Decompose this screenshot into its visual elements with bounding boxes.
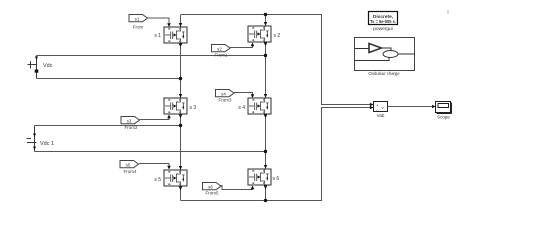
wire From1 to s2 gate <box>230 43 254 48</box>
From tag From3 (gate s4) <box>216 90 235 103</box>
svg-text:s 2: s 2 <box>274 33 281 39</box>
mosfet s5 <box>154 166 187 190</box>
wire left rail segment above s1 <box>180 15 182 27</box>
mosfet s2 <box>248 22 280 46</box>
wire Vab to Scope <box>388 105 436 108</box>
junction top bus / right rail <box>264 13 267 16</box>
svg-text:s4: s4 <box>221 92 226 97</box>
From tag From5 (gate s6) <box>203 183 222 196</box>
wire left rail s5 to bottom bus <box>180 187 182 201</box>
wire left rail s1 to s3 <box>180 44 182 98</box>
svg-text:s5: s5 <box>126 163 131 168</box>
svg-text:From2: From2 <box>124 125 137 130</box>
svg-text:s 1: s 1 <box>154 33 161 39</box>
powergui block <box>369 12 398 33</box>
svg-text:s2: s2 <box>217 47 222 52</box>
DC source Vdc <box>28 56 53 79</box>
svg-text:s 6: s 6 <box>273 176 280 182</box>
stray faint mark top right <box>447 10 449 15</box>
svg-text:Ts = 5e-005 s.: Ts = 5e-005 s. <box>370 19 396 25</box>
junction Vdc1 minus / right rail <box>264 150 267 153</box>
DC source Vdc1 <box>27 126 55 152</box>
junction Vdc plus / right rail <box>264 54 267 57</box>
wire From to s1 gate <box>148 18 171 27</box>
svg-text:Vdc 1: Vdc 1 <box>40 141 54 147</box>
From tag From1 (gate s2) <box>212 45 231 58</box>
wire right measurement drop (top bus to +) <box>322 15 373 105</box>
svg-text:Scope: Scope <box>437 115 450 120</box>
svg-text:powergui: powergui <box>373 26 392 32</box>
mosfet s1 <box>154 23 187 47</box>
wire left rail s3 to s5 <box>180 115 182 170</box>
svg-text:From4: From4 <box>123 169 136 174</box>
wire right rail segment above s2 <box>265 15 267 26</box>
svg-text:From: From <box>133 25 144 30</box>
wire right rail s2 to s4 <box>265 43 267 98</box>
svg-text:From5: From5 <box>205 191 218 196</box>
wire From2 to s3 gate <box>140 115 171 120</box>
wire right measurement rise (bottom bus to -) <box>322 108 373 201</box>
svg-text:From3: From3 <box>218 97 231 102</box>
subsystem Onduleur/charge <box>355 38 415 77</box>
svg-text:Vdc: Vdc <box>43 63 53 69</box>
wire right rail s4 to s6 <box>265 115 267 169</box>
wire Vdc1 plus to left rail <box>35 125 181 127</box>
wire Vdc1 minus to right rail <box>35 151 266 153</box>
From tag From2 (gate s3) <box>121 117 140 130</box>
wire top DC+ bus <box>181 14 323 16</box>
junction bottom bus / right rail <box>264 199 267 202</box>
scope block <box>436 102 452 120</box>
svg-text:From1: From1 <box>214 53 227 58</box>
svg-text:s1: s1 <box>135 17 140 22</box>
mosfet s3 <box>164 94 196 118</box>
svg-text:Discrete,: Discrete, <box>373 14 394 20</box>
svg-text:Onduleur charge: Onduleur charge <box>368 71 400 76</box>
wire From4 to s5 gate <box>139 164 171 170</box>
svg-text:s 5: s 5 <box>154 177 161 183</box>
wire From5 to s6 gate <box>221 186 255 190</box>
svg-text:s 3: s 3 <box>190 105 197 111</box>
svg-text:s6: s6 <box>208 185 213 190</box>
From tag From4 (gate s5) <box>120 161 139 174</box>
svg-text:v: v <box>382 105 384 110</box>
wire right rail s6 to bottom bus <box>265 186 267 201</box>
svg-text:s 4: s 4 <box>238 105 245 111</box>
From tag From (gate s1) <box>129 15 148 30</box>
wire bottom bus <box>181 200 323 202</box>
junction Vdc minus / left rail <box>179 77 182 80</box>
wire From3 to s4 gate <box>234 93 254 98</box>
mosfet s6 <box>248 165 279 189</box>
junction Vdc1 plus / left rail <box>179 124 182 127</box>
wire Vdc minus to left rail <box>37 78 181 80</box>
svg-text:s3: s3 <box>127 119 132 124</box>
mosfet s4 <box>238 94 271 118</box>
wire Vdc plus to right rail <box>37 55 266 57</box>
svg-text:Vab: Vab <box>377 113 385 118</box>
voltage measurement Vab <box>370 102 388 119</box>
